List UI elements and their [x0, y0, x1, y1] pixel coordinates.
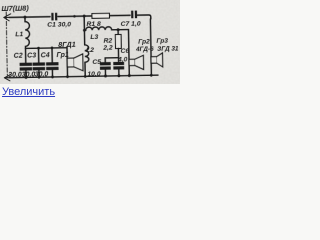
inductor L3 [84, 26, 128, 40]
node bottom Gr3 [150, 74, 153, 77]
capacitor C4 [34, 48, 59, 79]
connector dash-dot line [6, 12, 7, 78]
wire Gr3 feed [149, 19, 152, 75]
svg-text:2,2: 2,2 [102, 45, 113, 52]
svg-text:8ГД1: 8ГД1 [58, 40, 76, 49]
svg-text:R2: R2 [103, 37, 112, 44]
node L3 tap [83, 29, 86, 32]
link Uvelichit [2, 86, 55, 98]
svg-text:4,0: 4,0 [117, 56, 128, 63]
svg-text:L2: L2 [86, 47, 94, 54]
wire bottom rail [9, 75, 158, 78]
node C4 tap [51, 47, 54, 50]
svg-text:Гр1: Гр1 [56, 52, 69, 59]
svg-text:Гр2: Гр2 [138, 38, 150, 45]
node mid branch tap [83, 15, 86, 18]
capacitor C1 [47, 13, 71, 29]
wire Gr2 feed [128, 30, 131, 76]
capacitor C6 [113, 48, 130, 76]
inductor L1 [15, 17, 30, 49]
node bottom C6 [117, 74, 120, 77]
wire top rail [9, 15, 151, 21]
node bottom Gr1 [66, 75, 69, 78]
node bottom Gr2 [128, 74, 131, 77]
capacitor C3 [21, 48, 45, 79]
node R2 tap [117, 28, 120, 31]
svg-text:Ш7(Ш8): Ш7(Ш8) [1, 3, 29, 12]
node bottom C4 [51, 76, 54, 79]
svg-text:L1: L1 [15, 31, 23, 38]
node bottom L2 [84, 75, 87, 78]
node bottom C5 [104, 75, 107, 78]
loudspeaker Gr2 4GD-6 [129, 38, 155, 70]
svg-text:С4: С4 [41, 52, 50, 59]
svg-text:L3: L3 [90, 34, 98, 41]
wire mid rail [26, 47, 67, 50]
capacitor C2 [8, 48, 33, 79]
loudspeaker Gr3 3GD-31 [151, 37, 180, 67]
capacitor C7 [120, 11, 141, 29]
inductor L2 [85, 45, 101, 78]
resistor R1 [86, 13, 109, 28]
loudspeaker Gr1 8GD1 [56, 40, 83, 77]
connector pin arrow bottom [4, 75, 10, 81]
node bottom C3 [38, 76, 41, 79]
svg-text:С2: С2 [14, 53, 23, 60]
capacitor C5 [92, 58, 111, 76]
node bottom C2 [24, 76, 27, 79]
node C3 tap [37, 47, 40, 50]
node top rail tap [73, 15, 76, 18]
connector pin arrow top [4, 14, 11, 21]
resistor R2 [102, 30, 122, 58]
svg-text:С5: С5 [92, 59, 101, 66]
svg-text:Гр3: Гр3 [156, 37, 168, 44]
svg-text:С7 1,0: С7 1,0 [121, 21, 141, 28]
svg-text:ЗГД 31: ЗГД 31 [157, 45, 179, 52]
wire cap bracket [105, 58, 118, 62]
svg-text:С3: С3 [27, 52, 36, 59]
svg-text:С1 30,0: С1 30,0 [47, 21, 71, 28]
wire mid branch vertical [83, 16, 86, 45]
node L1 tap [23, 16, 26, 19]
